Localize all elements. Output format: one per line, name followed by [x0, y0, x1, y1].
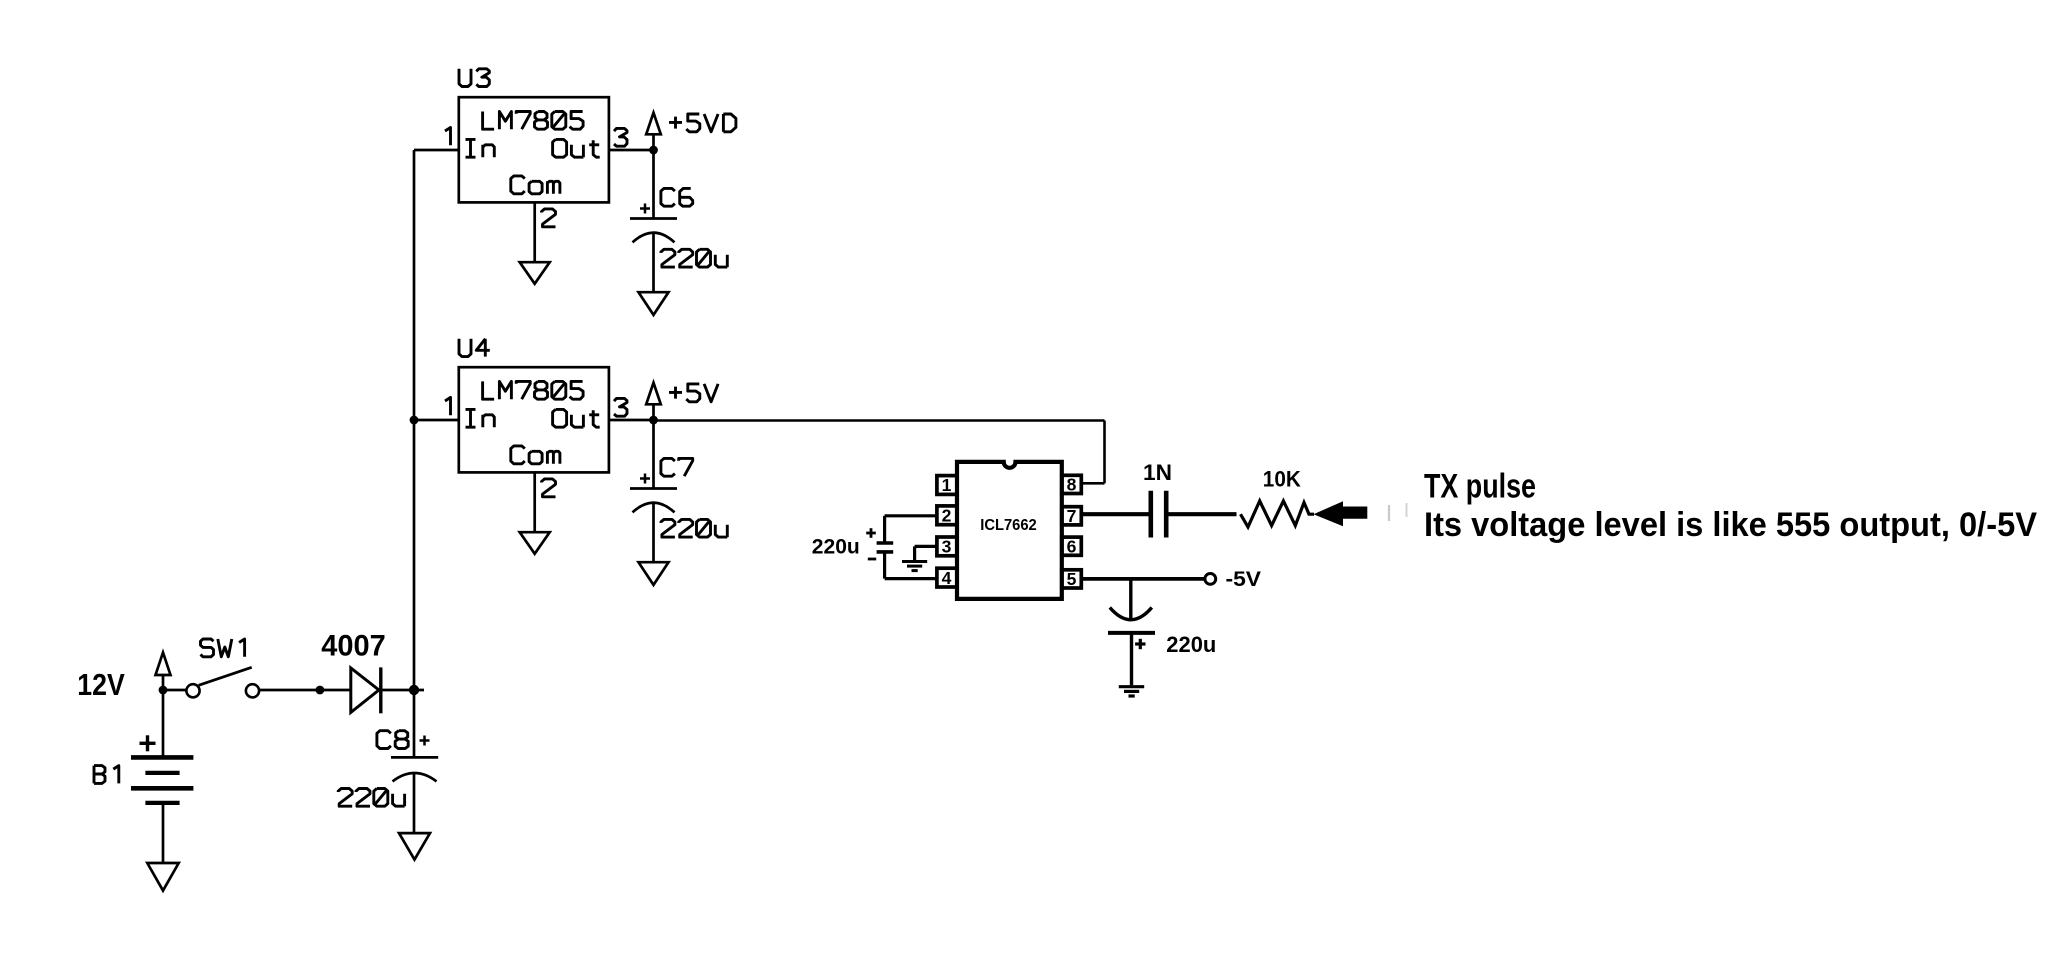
svg-text:1: 1	[942, 475, 952, 495]
svg-text:220u: 220u	[1166, 632, 1216, 657]
svg-text:2: 2	[942, 506, 952, 526]
svg-text:-5V: -5V	[1226, 566, 1262, 591]
svg-text:4007: 4007	[321, 630, 386, 663]
svg-text:1N: 1N	[1143, 460, 1172, 485]
svg-text:3: 3	[942, 537, 952, 557]
svg-text:5: 5	[1067, 569, 1077, 589]
svg-text:Its voltage level is like 555: Its voltage level is like 555 output, 0/…	[1424, 506, 2037, 544]
svg-text:4: 4	[942, 568, 952, 588]
svg-text:8: 8	[1067, 475, 1077, 495]
svg-text:7: 7	[1067, 506, 1077, 526]
svg-text:12V: 12V	[77, 668, 125, 702]
svg-text:220u: 220u	[812, 534, 860, 559]
svg-text:TX pulse: TX pulse	[1424, 467, 1536, 505]
svg-text:6: 6	[1067, 536, 1077, 556]
svg-text:ICL7662: ICL7662	[980, 517, 1037, 534]
svg-text:10K: 10K	[1263, 466, 1301, 491]
